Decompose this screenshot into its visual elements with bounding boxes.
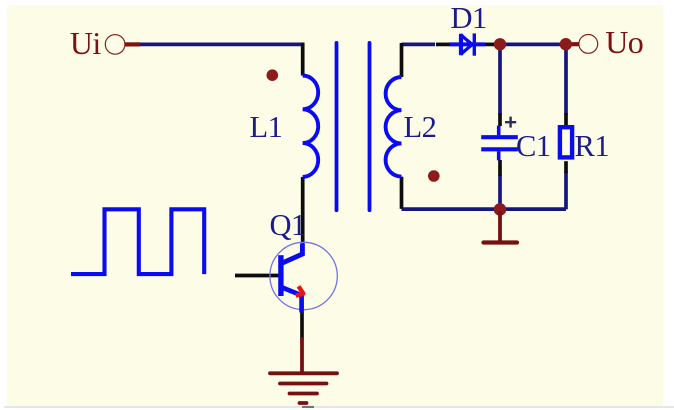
svg-text:Q1: Q1 [270, 208, 306, 242]
svg-text:L2: L2 [404, 110, 437, 144]
svg-text:C1: C1 [516, 129, 551, 163]
svg-text:Uo: Uo [605, 24, 643, 60]
svg-text:R1: R1 [575, 129, 610, 163]
svg-text:Ui: Ui [70, 25, 102, 61]
svg-text:L1: L1 [250, 110, 283, 144]
svg-text:D1: D1 [451, 1, 487, 35]
